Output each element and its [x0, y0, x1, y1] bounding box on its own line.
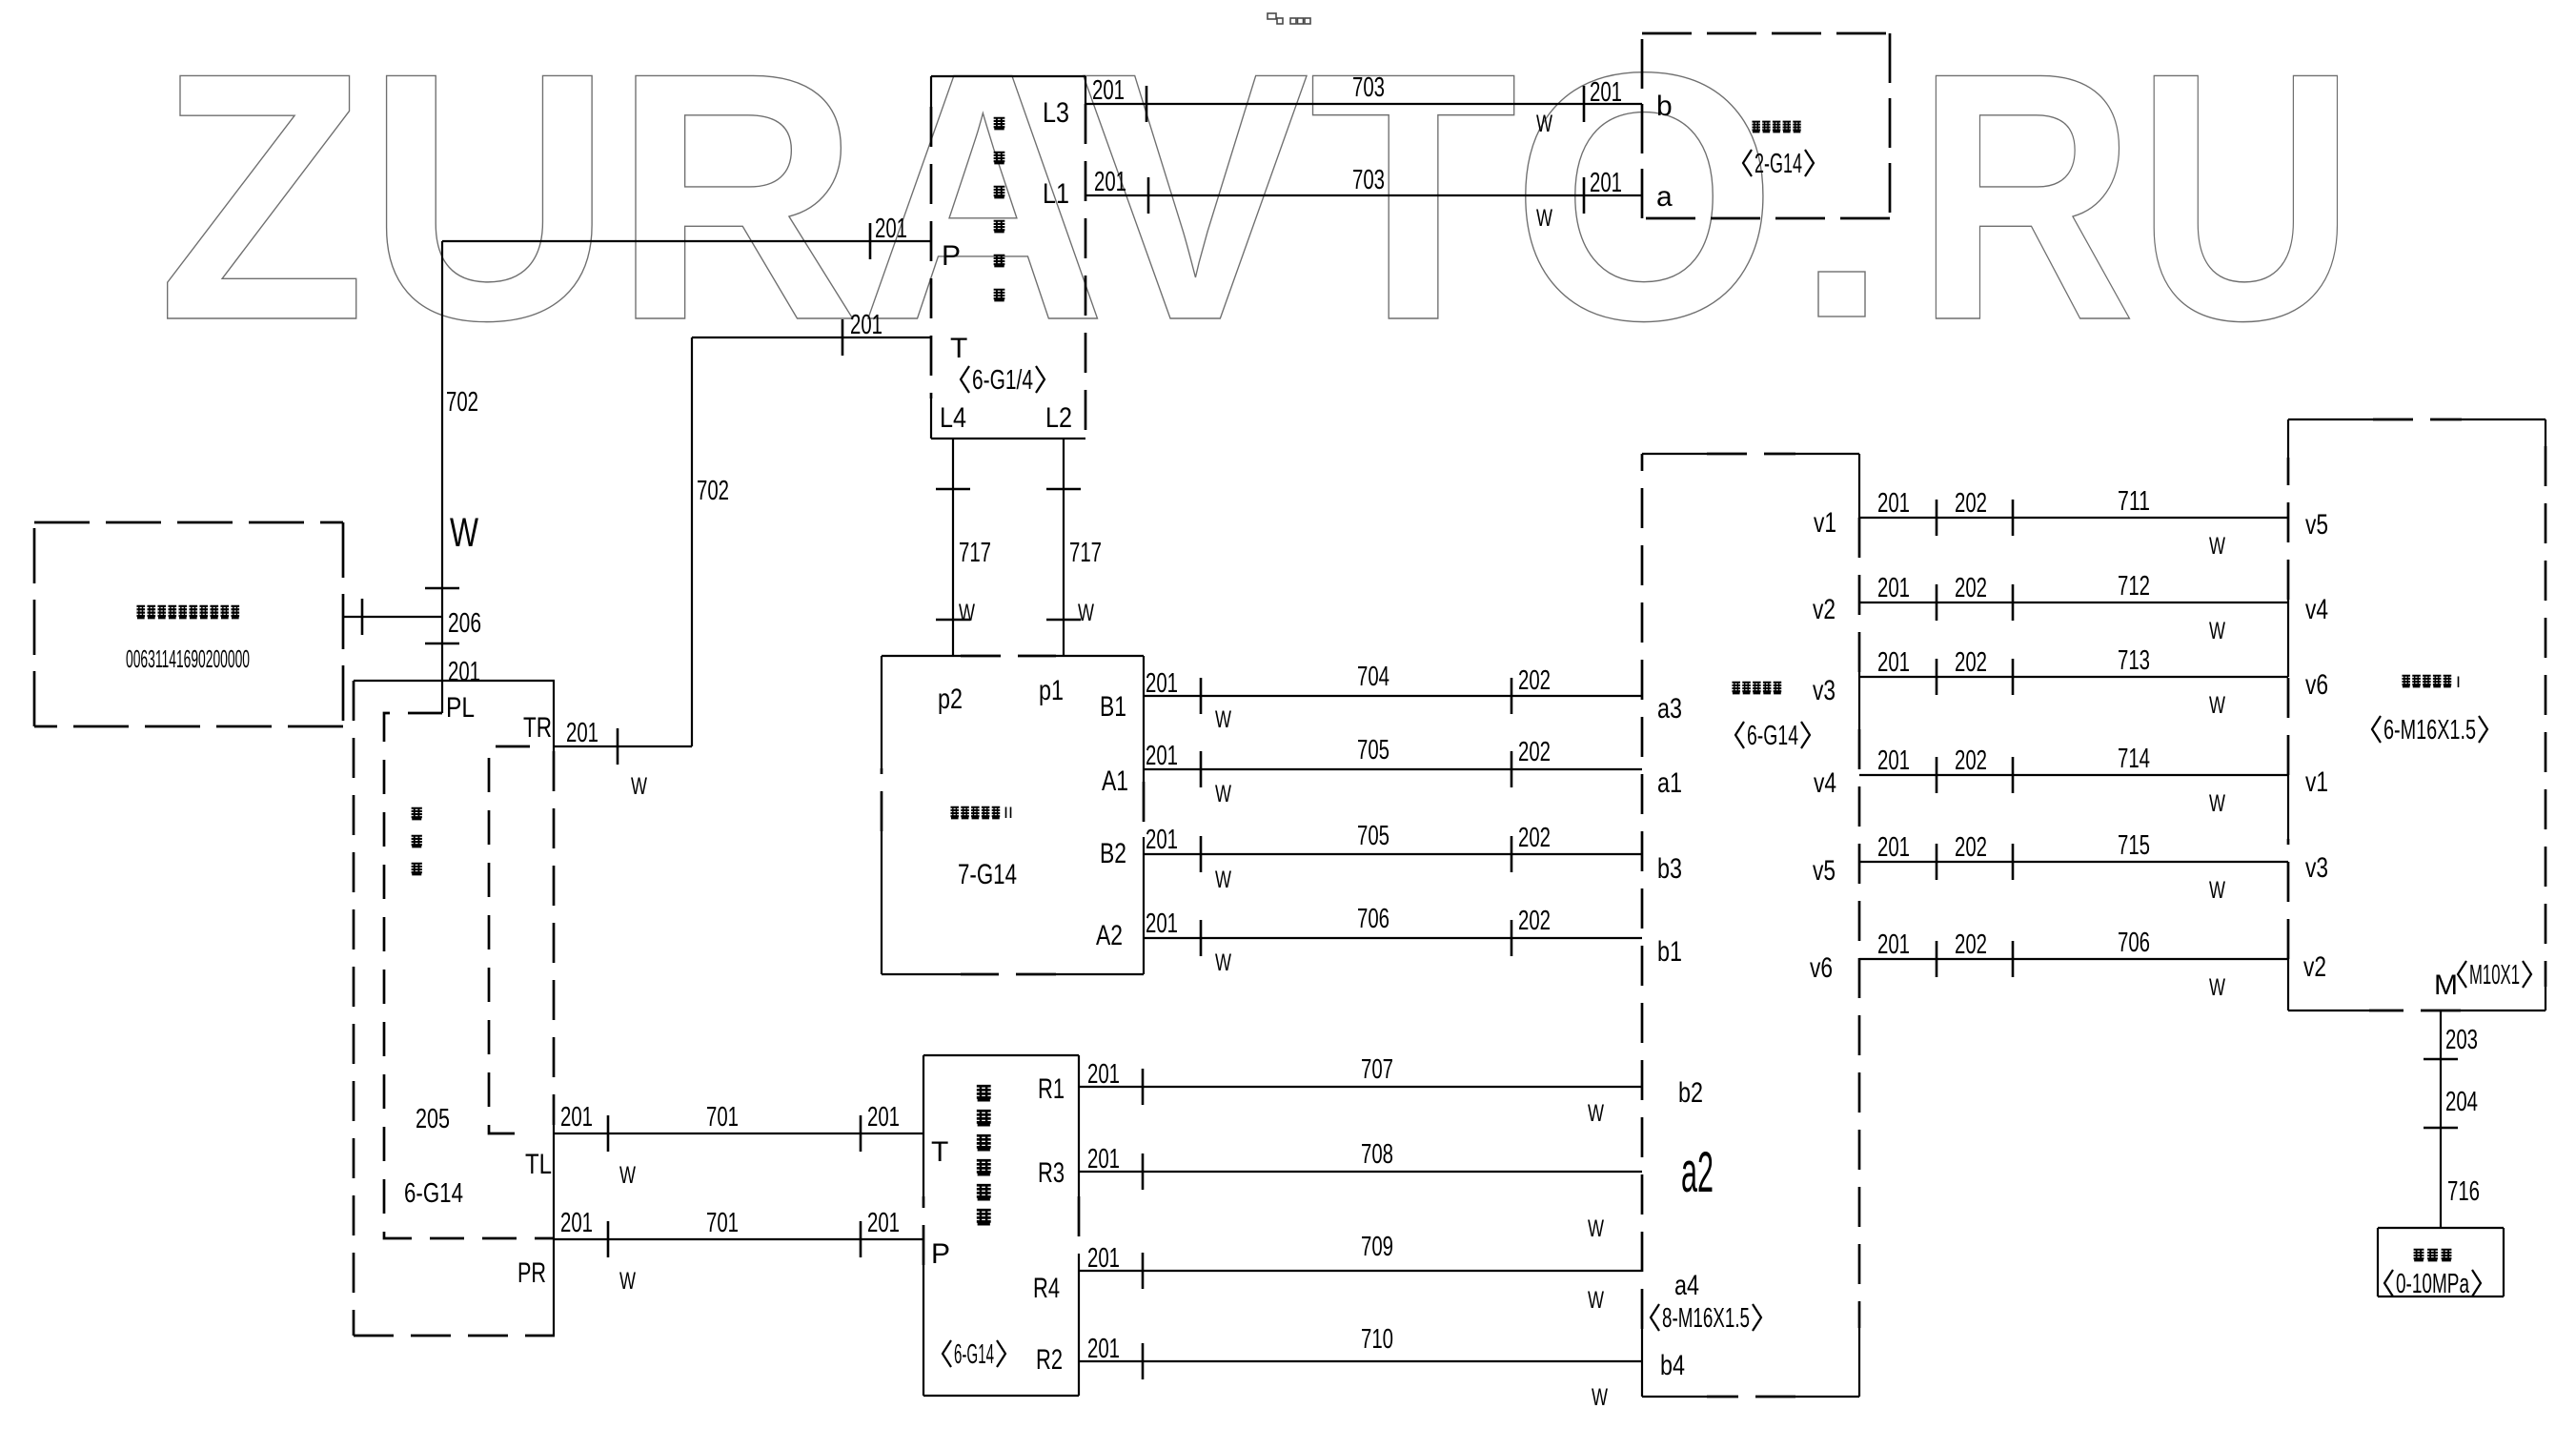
svg-text:v4: v4 [2305, 594, 2328, 625]
svg-text:TL: TL [525, 1149, 552, 1180]
svg-text:W: W [959, 600, 975, 626]
svg-text:b: b [1656, 91, 1673, 122]
svg-text:v6: v6 [1810, 952, 1833, 984]
svg-text:W: W [619, 1162, 636, 1189]
label 8-M16X1.5 [1651, 1304, 1659, 1331]
wire internal dashed TR path [489, 746, 532, 1133]
svg-text:201: 201 [1087, 1144, 1120, 1174]
wire 703 L1-to-a [1085, 177, 1642, 214]
svg-text:2-G14: 2-G14 [1755, 149, 1802, 179]
svg-text:202: 202 [1518, 906, 1551, 936]
svg-text:00631141690200000: 00631141690200000 [126, 644, 250, 673]
svg-text:M10X1: M10X1 [2469, 960, 2520, 990]
svg-text:201: 201 [1877, 745, 1910, 776]
label 2-G14 [1743, 150, 1752, 176]
wire 715 to combined control valve I [1859, 844, 2288, 880]
svg-text:201: 201 [1146, 668, 1178, 699]
svg-text:201: 201 [850, 310, 882, 340]
svg-text:W: W [1588, 1100, 1604, 1127]
svg-text:W: W [1215, 706, 1231, 733]
svg-text:203: 203 [2445, 1025, 2478, 1055]
svg-text:W: W [2209, 877, 2225, 904]
svg-text:R1: R1 [1038, 1073, 1065, 1105]
svg-text:202: 202 [1955, 929, 1987, 960]
svg-text:711: 711 [2118, 486, 2150, 517]
valve U4 pilot hydraulic control handle (lower) [923, 1055, 1079, 1396]
svg-text:703: 703 [1352, 165, 1385, 195]
svg-text:201: 201 [1877, 488, 1910, 519]
svg-text:W: W [1592, 1384, 1608, 1411]
svg-text:W: W [1588, 1287, 1604, 1314]
svg-text:201: 201 [1087, 1243, 1120, 1274]
svg-text:0-10MPa: 0-10MPa [2396, 1269, 2470, 1299]
wire 701 TL-to-T [554, 1115, 923, 1152]
valve U7 combined control valve I (6-M16X1.5) [2288, 419, 2546, 1011]
svg-text:201: 201 [448, 657, 480, 687]
svg-text:A1: A1 [1102, 766, 1128, 797]
svg-text:701: 701 [706, 1208, 739, 1238]
svg-text:v2: v2 [2303, 951, 2326, 983]
svg-text:M: M [2434, 970, 2458, 1001]
wire 708 to upper control valve [1079, 1153, 1642, 1190]
wire 703 L3-to-b [1085, 86, 1642, 122]
svg-text:W: W [1215, 867, 1231, 893]
svg-text:L3: L3 [1043, 97, 1069, 129]
svg-text:205: 205 [416, 1104, 450, 1134]
wire 702 P-line [425, 223, 931, 713]
svg-text:201: 201 [1877, 647, 1910, 678]
svg-text:202: 202 [1955, 647, 1987, 678]
svg-text:202: 202 [1518, 737, 1551, 767]
svg-text:L1: L1 [1043, 178, 1069, 210]
svg-text:v4: v4 [1814, 767, 1836, 799]
svg-text:b4: b4 [1660, 1350, 1685, 1381]
svg-text:6-G1/4: 6-G1/4 [972, 365, 1033, 396]
svg-text:201: 201 [560, 1208, 593, 1238]
svg-text:715: 715 [2118, 830, 2150, 861]
svg-text:202: 202 [1955, 573, 1987, 603]
svg-text:b2: b2 [1678, 1077, 1703, 1109]
wire 717 L2-to-p1 [1046, 439, 1081, 656]
block upper vehicle hydraulic piping reference [34, 522, 343, 726]
svg-text:201: 201 [1590, 77, 1622, 108]
svg-text:201: 201 [875, 214, 907, 244]
svg-text:W: W [1588, 1215, 1604, 1242]
svg-text:v1: v1 [1814, 507, 1836, 539]
svg-text:p1: p1 [1039, 675, 1064, 706]
svg-text:v1: v1 [2305, 766, 2328, 798]
svg-text:b3: b3 [1657, 853, 1682, 885]
wire 706 to upper control valve [1144, 920, 1642, 956]
svg-text:717: 717 [959, 538, 991, 568]
svg-text:704: 704 [1357, 662, 1389, 692]
svg-text:W: W [1078, 600, 1094, 626]
svg-text:PL: PL [446, 692, 475, 724]
wire 711 to combined control valve I [1859, 500, 2288, 536]
svg-text:202: 202 [1518, 665, 1551, 696]
gauge U8 pressure gauge (0-10MPa) [2378, 1228, 2504, 1296]
svg-text:a4: a4 [1674, 1270, 1699, 1301]
label 6-G14 [943, 1340, 951, 1367]
svg-text:706: 706 [1357, 904, 1389, 934]
svg-text:a2: a2 [1681, 1140, 1714, 1204]
svg-text:705: 705 [1357, 735, 1389, 766]
manifold U3 oil collector (6-G14) [354, 681, 555, 1336]
svg-text:204: 204 [2445, 1087, 2478, 1117]
wire 714 to combined control valve I [1859, 757, 2288, 793]
wire 716 gauge line [2424, 1011, 2458, 1228]
svg-text:L4: L4 [940, 402, 966, 434]
svg-text:RU: RU [1916, 0, 2356, 394]
svg-text:201: 201 [867, 1208, 900, 1238]
svg-text:p2: p2 [938, 684, 963, 715]
wire 201 TR-line [554, 728, 692, 765]
svg-text:PR: PR [517, 1257, 546, 1289]
svg-text:201: 201 [867, 1102, 900, 1133]
svg-text:v2: v2 [1813, 594, 1836, 625]
label 6-G14 [1735, 722, 1744, 748]
wire 713 to combined control valve I [1859, 659, 2288, 695]
wire 706 to combined control valve I [1859, 941, 2288, 977]
svg-text:W: W [2209, 533, 2225, 560]
svg-text:201: 201 [1146, 741, 1178, 771]
svg-text:v3: v3 [1813, 675, 1836, 706]
wire 705 to upper control valve [1144, 751, 1642, 787]
svg-text:6-G14: 6-G14 [404, 1178, 463, 1209]
svg-text:a: a [1656, 181, 1673, 213]
svg-text:P: P [942, 240, 961, 272]
svg-text:R4: R4 [1033, 1273, 1060, 1304]
svg-text:T: T [931, 1136, 948, 1168]
svg-text:v5: v5 [1813, 855, 1836, 887]
svg-text:201: 201 [1590, 168, 1622, 198]
svg-text:206: 206 [448, 608, 481, 639]
svg-text:713: 713 [2118, 645, 2150, 676]
svg-text:201: 201 [1877, 832, 1910, 863]
wire 705 to upper control valve [1144, 836, 1642, 872]
svg-text:201: 201 [1094, 167, 1126, 197]
wire 709 to upper control valve [1079, 1253, 1642, 1289]
watermark dot [1818, 272, 1865, 316]
svg-text:W: W [1536, 111, 1552, 137]
svg-text:716: 716 [2447, 1176, 2480, 1207]
svg-text:R3: R3 [1038, 1157, 1065, 1189]
svg-text:A2: A2 [1096, 920, 1123, 951]
svg-text:702: 702 [446, 387, 478, 418]
wire 710 to upper control valve [1079, 1343, 1642, 1379]
svg-text:a1: a1 [1657, 767, 1682, 799]
svg-text:706: 706 [2118, 928, 2150, 958]
svg-text:W: W [450, 510, 478, 556]
svg-text:201: 201 [1877, 573, 1910, 603]
svg-text:II: II [1004, 804, 1013, 822]
svg-text:v5: v5 [2305, 509, 2328, 541]
svg-text:W: W [2209, 974, 2225, 1001]
svg-text:W: W [2209, 618, 2225, 644]
svg-text:L2: L2 [1045, 402, 1072, 434]
icon squares top [1268, 13, 1310, 24]
svg-text:202: 202 [1955, 745, 1987, 776]
svg-text:W: W [2209, 692, 2225, 719]
svg-text:v6: v6 [2305, 669, 2328, 701]
svg-text:703: 703 [1352, 72, 1385, 103]
svg-text:201: 201 [566, 718, 598, 748]
svg-text:R2: R2 [1036, 1344, 1063, 1376]
svg-text:714: 714 [2118, 744, 2150, 774]
wire 717 L4-to-p2 [936, 439, 970, 656]
svg-text:7-G14: 7-G14 [958, 859, 1017, 890]
svg-text:201: 201 [560, 1102, 593, 1133]
svg-text:201: 201 [1877, 929, 1910, 960]
svg-text:T: T [950, 333, 967, 364]
svg-text:705: 705 [1357, 821, 1389, 851]
svg-text:202: 202 [1518, 823, 1551, 853]
svg-text:202: 202 [1955, 832, 1987, 863]
svg-text:712: 712 [2118, 571, 2150, 602]
wire 702 T-line [692, 319, 931, 746]
svg-text:201: 201 [1146, 825, 1178, 855]
svg-text:W: W [619, 1268, 636, 1295]
svg-text:B2: B2 [1100, 838, 1126, 869]
svg-text:702: 702 [697, 476, 729, 506]
svg-text:W: W [2209, 790, 2225, 817]
label 6-M16X1.5 [2372, 716, 2381, 743]
label M10X1 [2458, 961, 2466, 988]
svg-text:v3: v3 [2305, 852, 2328, 884]
svg-text:W: W [1215, 781, 1231, 807]
label 6-G1/4 [961, 366, 969, 393]
wire 206 from upper-vehicle system [343, 599, 442, 635]
svg-text:W: W [631, 773, 647, 800]
svg-text:201: 201 [1092, 75, 1125, 106]
valve U2 swing brake valve (2-G14) [1642, 33, 1890, 218]
label 0-10MPa [2384, 1270, 2393, 1296]
valve U1 pilot hydraulic control handle (upper) [931, 76, 1085, 439]
svg-text:B1: B1 [1100, 691, 1126, 723]
svg-text:710: 710 [1361, 1324, 1393, 1355]
svg-text:TR: TR [523, 712, 552, 744]
svg-text:201: 201 [1087, 1334, 1120, 1364]
svg-text:W: W [1215, 949, 1231, 976]
svg-text:202: 202 [1955, 488, 1987, 519]
wire 707 to upper control valve [1079, 1069, 1642, 1105]
svg-text:b1: b1 [1657, 936, 1682, 968]
valve U5 combined control valve II (7-G14) [882, 656, 1144, 974]
svg-text:707: 707 [1361, 1054, 1393, 1085]
valve U6 upper operating valve (6-G14 / 8-M16X1.5) [1642, 454, 1859, 1397]
svg-text:6-M16X1.5: 6-M16X1.5 [2383, 715, 2476, 745]
wire 712 to combined control valve I [1859, 584, 2288, 621]
svg-text:708: 708 [1361, 1139, 1393, 1170]
svg-text:6-G14: 6-G14 [1747, 721, 1798, 751]
svg-text:717: 717 [1069, 538, 1102, 568]
wire 701 PR-to-P [555, 1221, 923, 1257]
svg-text:709: 709 [1361, 1232, 1393, 1262]
svg-text:W: W [1536, 205, 1552, 232]
svg-text:6-G14: 6-G14 [954, 1339, 994, 1370]
svg-text:P: P [931, 1238, 950, 1270]
svg-text:a3: a3 [1657, 693, 1682, 725]
svg-text:8-M16X1.5: 8-M16X1.5 [1662, 1303, 1750, 1334]
svg-text:201: 201 [1087, 1059, 1120, 1090]
svg-text:201: 201 [1146, 908, 1178, 939]
svg-text:I: I [2456, 673, 2461, 691]
wire 704 to upper control valve [1144, 678, 1642, 714]
svg-text:701: 701 [706, 1102, 739, 1133]
wire internal dashed PL path [384, 713, 555, 1238]
